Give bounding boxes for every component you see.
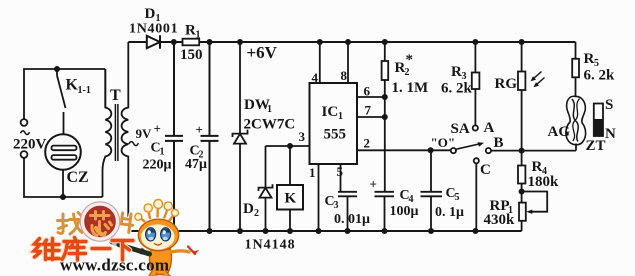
wire pin3 to D2/K bbox=[266, 145, 310, 147]
wire B to RG/R4 node and AG bbox=[491, 150, 576, 152]
node B/RG/R4 junction bbox=[519, 148, 525, 154]
svg-text:S: S bbox=[605, 97, 613, 113]
node ground rail junction dots bbox=[171, 228, 479, 234]
op-amp U1 IC1 555 box bbox=[310, 83, 358, 164]
wire pin2 bbox=[357, 149, 451, 151]
svg-text:1: 1 bbox=[338, 111, 343, 122]
svg-text:4: 4 bbox=[312, 70, 319, 85]
reed switch AG bbox=[566, 96, 586, 145]
zener diode DW1 2CW7C bbox=[233, 42, 248, 231]
svg-text:5: 5 bbox=[455, 192, 460, 203]
svg-text:"O": "O" bbox=[431, 135, 456, 150]
svg-text:*: * bbox=[406, 52, 414, 68]
svg-text:R: R bbox=[584, 51, 595, 67]
wm magnifier glass bbox=[82, 204, 117, 239]
body bbox=[150, 249, 172, 275]
svg-text:5: 5 bbox=[337, 164, 344, 179]
svg-text:150: 150 bbox=[180, 47, 203, 63]
svg-text:IC: IC bbox=[322, 104, 339, 120]
terminal ~220V bottom bbox=[21, 151, 28, 158]
node box top junction bbox=[54, 66, 60, 72]
svg-text:220V: 220V bbox=[13, 137, 47, 153]
switch SA terminal C bbox=[474, 158, 479, 163]
wm text weikuyixia bbox=[34, 238, 133, 261]
svg-text:2CW7C: 2CW7C bbox=[244, 117, 296, 133]
svg-text:N: N bbox=[605, 126, 616, 142]
capacitor C1 bbox=[165, 42, 183, 231]
resistor R5 6.2k bbox=[572, 59, 579, 78]
svg-text:R: R bbox=[451, 64, 462, 80]
svg-text:2: 2 bbox=[405, 67, 410, 78]
wm glass handle / pen bbox=[112, 242, 115, 243]
svg-text:R: R bbox=[532, 159, 543, 175]
capacitor C4 bbox=[375, 192, 395, 231]
svg-text:7: 7 bbox=[365, 103, 372, 118]
resistor R2 1.1M bbox=[382, 61, 389, 80]
svg-text:0. 01μ: 0. 01μ bbox=[334, 212, 370, 227]
node pin6 junction bbox=[382, 94, 388, 100]
magnet ZT bbox=[594, 104, 603, 137]
capacitor C5 bbox=[421, 150, 443, 231]
switch SA terminal A bbox=[473, 125, 478, 130]
zener diode D2 1N4148 bbox=[259, 146, 273, 231]
svg-text:+: + bbox=[154, 121, 161, 136]
capacitor C2 bbox=[201, 42, 219, 231]
svg-text:D: D bbox=[243, 201, 254, 217]
wire pin4 bbox=[319, 42, 321, 83]
wire pin1 bbox=[318, 164, 320, 231]
node C5 tap junction bbox=[428, 147, 434, 153]
right arm bbox=[171, 251, 189, 252]
svg-text:1: 1 bbox=[267, 104, 272, 115]
wire C terminal to ground bbox=[475, 163, 477, 231]
wire pin6 bbox=[357, 96, 385, 98]
wire pin7 bbox=[357, 116, 385, 118]
svg-text:www.dzsc.com: www.dzsc.com bbox=[60, 256, 169, 275]
svg-text:100μ: 100μ bbox=[390, 204, 419, 219]
plug box K1-1 / CZ outline bbox=[24, 69, 105, 197]
text labels bbox=[66, 6, 278, 104]
wire top rail bbox=[128, 41, 575, 43]
node box bottom junction bbox=[60, 194, 66, 200]
svg-text:1N4001: 1N4001 bbox=[129, 22, 178, 37]
svg-text:6: 6 bbox=[364, 84, 371, 99]
wire bottom rail bbox=[128, 230, 522, 232]
svg-text:6. 2k: 6. 2k bbox=[441, 81, 473, 97]
svg-text:1. 1M: 1. 1M bbox=[392, 80, 429, 96]
legs bbox=[149, 271, 171, 276]
svg-text:1: 1 bbox=[160, 147, 165, 158]
switch SA blade bbox=[456, 144, 479, 149]
diode D1 1N4001 bbox=[147, 35, 160, 48]
svg-text:6. 2k: 6. 2k bbox=[584, 68, 616, 84]
wm char pian bbox=[117, 213, 134, 233]
wire AG bottom bbox=[575, 144, 577, 151]
svg-text:A: A bbox=[484, 120, 495, 136]
svg-text:1-1: 1-1 bbox=[78, 85, 91, 96]
head bbox=[138, 219, 178, 251]
socket CZ bbox=[45, 134, 81, 170]
svg-text:R: R bbox=[185, 23, 196, 39]
svg-text:K: K bbox=[285, 191, 297, 207]
light arrows into RG bbox=[533, 72, 545, 86]
svg-text:47μ: 47μ bbox=[185, 157, 207, 172]
transformer T core bbox=[115, 104, 118, 161]
svg-text:220μ: 220μ bbox=[143, 158, 172, 173]
wm char xin bbox=[91, 212, 112, 236]
svg-text:3: 3 bbox=[334, 200, 339, 211]
wire CZ to box bottom bbox=[62, 170, 64, 197]
mouth bbox=[155, 244, 162, 246]
node pin3/K junction bbox=[287, 143, 293, 149]
svg-text:555: 555 bbox=[324, 127, 347, 143]
node pin7 junction bbox=[382, 114, 388, 120]
switch K1-1 bbox=[57, 69, 66, 135]
svg-text:1: 1 bbox=[309, 165, 316, 180]
svg-text:ZT: ZT bbox=[586, 138, 606, 154]
photoresistor RG bbox=[518, 72, 525, 91]
svg-text:+: + bbox=[370, 177, 377, 192]
wm mascot bbox=[135, 200, 199, 276]
relay coil K bbox=[277, 185, 303, 210]
terminal ~220V top bbox=[21, 119, 28, 126]
wm char zhao bbox=[58, 213, 83, 235]
capacitor C3 bbox=[338, 192, 357, 231]
svg-text:B: B bbox=[494, 135, 504, 151]
crown stalks bbox=[139, 206, 175, 222]
svg-text:CZ: CZ bbox=[67, 169, 89, 186]
node R4/RP1 junction bbox=[519, 189, 525, 195]
svg-text:RG: RG bbox=[495, 76, 518, 92]
wire pin8 bbox=[347, 42, 349, 83]
svg-text:D: D bbox=[145, 6, 156, 22]
crown balls bbox=[135, 200, 179, 221]
resistor R3 6.2k bbox=[472, 73, 480, 90]
svg-text:+6V: +6V bbox=[247, 43, 278, 62]
svg-text:1: 1 bbox=[196, 30, 201, 41]
transformer T primary winding bbox=[103, 69, 112, 197]
switch SA terminal O bbox=[451, 148, 456, 153]
wire RP1 wiper feedback bbox=[522, 192, 548, 212]
svg-text:8: 8 bbox=[341, 68, 348, 83]
svg-text:1N4148: 1N4148 bbox=[245, 238, 296, 253]
red flag bbox=[188, 247, 195, 255]
svg-text:2: 2 bbox=[254, 208, 259, 219]
eyes bbox=[146, 228, 156, 241]
svg-text:AG: AG bbox=[548, 124, 571, 140]
svg-text:9V: 9V bbox=[136, 126, 153, 141]
svg-text:C: C bbox=[480, 162, 491, 178]
left arm to pen bbox=[142, 250, 150, 253]
resistor R4 180k bbox=[518, 166, 525, 184]
svg-text:DW: DW bbox=[244, 97, 270, 113]
svg-text:430k: 430k bbox=[484, 212, 516, 228]
transformer T secondary winding bbox=[122, 42, 129, 231]
resistor R1 bbox=[183, 39, 200, 46]
svg-text:+: + bbox=[196, 122, 203, 137]
svg-text:2: 2 bbox=[364, 136, 371, 151]
wire pin5 bbox=[340, 164, 342, 192]
svg-text:T: T bbox=[110, 87, 121, 104]
switch SA terminal B bbox=[486, 148, 491, 153]
potentiometer RP1 430k bbox=[519, 203, 526, 221]
node +6V junction dots on top rail bbox=[171, 39, 525, 45]
svg-text:3: 3 bbox=[299, 129, 306, 144]
svg-text:180k: 180k bbox=[528, 174, 560, 190]
svg-text:0. 1μ: 0. 1μ bbox=[435, 205, 464, 220]
watermark dzsc.com bbox=[34, 200, 199, 276]
